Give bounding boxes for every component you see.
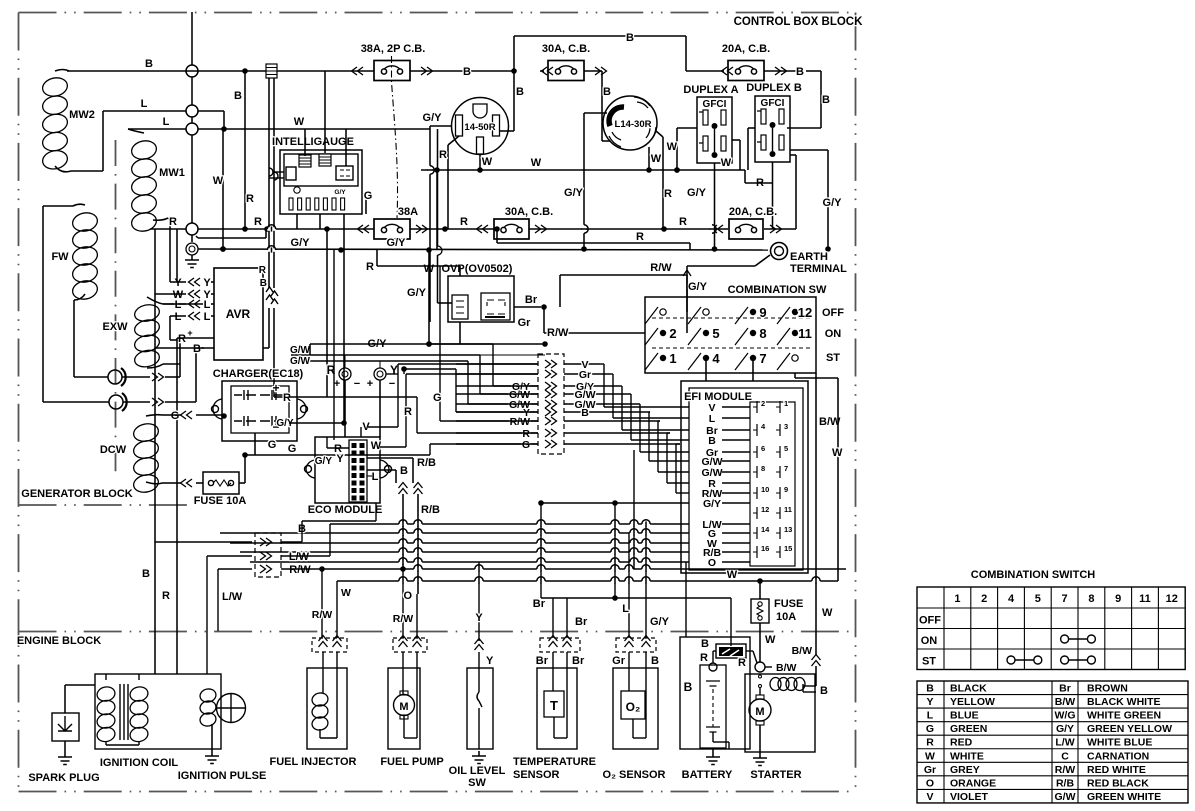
svg-text:B: B — [260, 278, 267, 289]
svg-text:R: R — [162, 590, 170, 602]
svg-text:L: L — [927, 710, 934, 722]
svg-text:L: L — [709, 413, 716, 425]
svg-text:B/W: B/W — [1055, 696, 1076, 708]
wire GFCI A leads — [667, 128, 740, 249]
svg-text:ST: ST — [826, 352, 840, 364]
svg-text:Br: Br — [575, 616, 588, 628]
svg-text:R/W: R/W — [289, 564, 311, 576]
svg-text:OIL LEVEL: OIL LEVEL — [449, 765, 506, 777]
svg-text:R: R — [738, 657, 746, 669]
svg-text:YELLOW: YELLOW — [950, 696, 995, 708]
module ECO MODULE — [305, 437, 392, 516]
svg-text:BLACK WHITE: BLACK WHITE — [1087, 696, 1161, 708]
svg-text:4: 4 — [712, 351, 720, 366]
svg-text:16: 16 — [761, 544, 769, 553]
wire GFCI B leads — [748, 128, 842, 249]
connector bulkhead column — [538, 354, 564, 454]
wire L/W R/W rows — [207, 551, 311, 674]
svg-text:TEMPERATURE: TEMPERATURE — [513, 756, 596, 768]
svg-text:G/Y: G/Y — [291, 237, 311, 249]
wire B/W chevron to starter — [792, 607, 833, 686]
svg-text:B: B — [581, 407, 589, 419]
svg-text:WHITE: WHITE — [950, 750, 984, 762]
svg-text:R: R — [254, 216, 262, 228]
svg-text:WHITE GREEN: WHITE GREEN — [1087, 710, 1161, 722]
wire starter R node — [738, 657, 746, 669]
svg-text:W: W — [721, 157, 732, 169]
starter STARTER — [745, 662, 828, 781]
svg-text:5: 5 — [712, 326, 719, 341]
svg-text:Y: Y — [475, 612, 483, 624]
connector ECO chevrons — [399, 483, 441, 595]
svg-text:B: B — [796, 66, 804, 78]
module AVR U1 — [214, 268, 263, 360]
svg-text:6: 6 — [761, 444, 765, 453]
wire OVP Br out — [514, 294, 645, 339]
svg-text:TERMINAL: TERMINAL — [790, 263, 847, 275]
wire B drop column — [234, 68, 254, 232]
svg-text:ON: ON — [825, 328, 842, 340]
svg-text:C: C — [1061, 750, 1069, 762]
svg-text:1: 1 — [784, 399, 788, 408]
svg-text:R/W: R/W — [1055, 764, 1076, 776]
svg-text:Y: Y — [336, 453, 344, 465]
svg-text:RED WHITE: RED WHITE — [1087, 764, 1146, 776]
svg-text:R: R — [246, 193, 254, 205]
plug SPARK PLUG — [28, 685, 99, 784]
wire B label top — [145, 58, 153, 70]
svg-text:SENSOR: SENSOR — [513, 769, 560, 781]
svg-text:Br: Br — [536, 655, 549, 667]
svg-text:G: G — [364, 190, 373, 202]
svg-text:14-50R: 14-50R — [464, 122, 495, 133]
svg-text:T: T — [550, 698, 558, 713]
svg-text:R/W: R/W — [650, 262, 672, 274]
wire W bus bottom — [337, 562, 838, 637]
svg-text:Gr: Gr — [612, 655, 626, 667]
svg-text:GREEN WHITE: GREEN WHITE — [1087, 791, 1161, 803]
svg-text:G/Y: G/Y — [1056, 723, 1074, 735]
svg-text:EARTH: EARTH — [790, 251, 828, 263]
svg-text:R/W: R/W — [312, 609, 333, 621]
svg-text:14: 14 — [761, 525, 770, 534]
svg-text:38A, 2P C.B.: 38A, 2P C.B. — [361, 43, 426, 55]
svg-text:B: B — [926, 683, 934, 695]
wire G/Y mid — [310, 341, 460, 355]
pump FUEL PUMP — [380, 636, 443, 769]
svg-text:COMBINATION SW: COMBINATION SW — [728, 284, 827, 296]
svg-text:B: B — [820, 685, 828, 697]
wire R return mid — [494, 226, 690, 250]
node CONTROL BOX BLOCK label — [734, 16, 864, 28]
wire R/W to comb — [560, 262, 687, 307]
svg-text:8: 8 — [1088, 593, 1094, 605]
wire: engine block top border — [19, 631, 856, 633]
svg-text:G: G — [926, 723, 934, 735]
svg-text:G/Y: G/Y — [315, 456, 333, 467]
winding MW2 — [41, 70, 355, 172]
sensor IGNITION PULSE — [178, 687, 267, 782]
wire winding common column — [186, 12, 198, 242]
wire W down to OVP — [424, 129, 452, 303]
svg-text:AVR: AVR — [226, 307, 251, 321]
svg-text:W: W — [482, 156, 493, 168]
svg-text:CHARGER(EC18): CHARGER(EC18) — [213, 368, 304, 380]
svg-text:Br: Br — [572, 655, 585, 667]
svg-text:L: L — [175, 299, 182, 311]
svg-text:5: 5 — [784, 444, 788, 453]
resistor hatch top — [266, 64, 284, 185]
svg-text:20A, C.B.: 20A, C.B. — [722, 43, 770, 55]
svg-text:G/W: G/W — [1055, 791, 1076, 803]
svg-text:B/W: B/W — [792, 645, 813, 657]
svg-text:ON: ON — [921, 635, 938, 647]
svg-text:GREEN YELLOW: GREEN YELLOW — [1087, 723, 1172, 735]
relay fusible link — [713, 644, 757, 663]
svg-text:GREEN: GREEN — [950, 723, 987, 735]
svg-text:B/W: B/W — [776, 662, 797, 674]
svg-text:R/W: R/W — [510, 416, 531, 428]
svg-text:MW2: MW2 — [69, 109, 95, 121]
svg-text:L: L — [204, 311, 211, 323]
svg-text:G: G — [522, 439, 530, 451]
wire CB1 trip link — [392, 56, 398, 218]
table color legend — [917, 681, 1188, 803]
wire comb sw drops — [687, 275, 753, 381]
svg-text:B: B — [701, 638, 709, 650]
svg-text:B: B — [708, 435, 716, 447]
svg-text:G/Y: G/Y — [650, 616, 670, 628]
svg-text:CONTROL BOX BLOCK: CONTROL BOX BLOCK — [734, 16, 864, 28]
svg-text:2: 2 — [669, 326, 676, 341]
svg-text:G: G — [171, 410, 180, 422]
svg-text:R/B: R/B — [1056, 777, 1075, 789]
module CHARGER(EC18) — [212, 368, 308, 441]
svg-text:R: R — [404, 406, 412, 418]
terminal EARTH — [687, 243, 847, 276]
svg-text:7: 7 — [759, 351, 766, 366]
winding FW — [43, 204, 109, 402]
wire AVR input L1 — [163, 299, 214, 311]
svg-text:R: R — [439, 149, 447, 161]
svg-text:FUEL PUMP: FUEL PUMP — [380, 756, 443, 768]
wire left feeds to connector — [327, 266, 545, 455]
svg-text:L: L — [204, 299, 211, 311]
svg-text:30A, C.B.: 30A, C.B. — [542, 43, 590, 55]
wire AVR input R+ — [177, 229, 214, 595]
svg-text:R: R — [366, 261, 374, 273]
svg-text:RED BLACK: RED BLACK — [1087, 777, 1149, 789]
svg-text:FUSE: FUSE — [774, 598, 803, 610]
breaker CB5 30A mid — [477, 206, 554, 239]
svg-text:O: O — [926, 777, 934, 789]
ground earth left — [185, 243, 199, 268]
wire bundle verticals mid — [538, 450, 689, 598]
svg-text:G/Y: G/Y — [564, 187, 584, 199]
svg-text:G/Y: G/Y — [823, 197, 843, 209]
table COMBINATION SWITCH — [917, 569, 1185, 670]
svg-text:11: 11 — [798, 326, 812, 341]
svg-text:+: + — [187, 328, 192, 338]
svg-text:Gr: Gr — [518, 317, 532, 329]
svg-text:DUPLEX B: DUPLEX B — [746, 82, 802, 94]
svg-text:9: 9 — [759, 305, 766, 320]
svg-text:FUEL INJECTOR: FUEL INJECTOR — [270, 756, 357, 768]
svg-text:R/B: R/B — [417, 457, 436, 469]
svg-text:L/W: L/W — [1055, 737, 1074, 749]
wire B junction to top — [511, 32, 686, 112]
svg-text:SW: SW — [468, 777, 486, 789]
svg-text:W: W — [294, 116, 305, 128]
svg-text:G: G — [268, 439, 277, 451]
wire AVR input L2 — [170, 311, 214, 340]
svg-text:OVP(OV0502): OVP(OV0502) — [442, 263, 513, 275]
svg-text:IGNITION COIL: IGNITION COIL — [100, 757, 179, 769]
battery BATTERY — [680, 637, 750, 781]
svg-text:RED: RED — [950, 737, 973, 749]
fuse F1 10A — [167, 472, 246, 507]
wire charger G in — [167, 410, 227, 422]
svg-text:W: W — [531, 157, 542, 169]
svg-text:B: B — [193, 343, 201, 355]
svg-text:1: 1 — [954, 593, 960, 605]
switch OIL LEVEL SW — [449, 639, 506, 790]
terminal charger R+ — [327, 363, 361, 437]
svg-text:L: L — [141, 98, 148, 110]
svg-text:W: W — [371, 440, 382, 452]
svg-text:G/Y: G/Y — [407, 287, 427, 299]
wire AVR input Y — [170, 229, 214, 289]
wire pair down to charger — [259, 185, 289, 397]
svg-text:SPARK PLUG: SPARK PLUG — [28, 772, 99, 784]
svg-text:W: W — [341, 587, 351, 599]
breaker CB2 30A — [540, 43, 611, 110]
svg-text:V: V — [926, 791, 933, 803]
wire EFI right B/W W — [795, 373, 843, 648]
fuse F2 10A — [751, 581, 803, 662]
wire G/Y OVP drop — [407, 250, 430, 322]
svg-text:2: 2 — [981, 593, 987, 605]
svg-text:7: 7 — [784, 464, 788, 473]
svg-text:W: W — [822, 607, 833, 619]
breaker CB1 38A 2P — [352, 43, 515, 81]
svg-text:CARNATION: CARNATION — [1087, 750, 1149, 762]
svg-text:Y: Y — [926, 696, 933, 708]
svg-text:R: R — [460, 216, 468, 228]
svg-text:COMBINATION SWITCH: COMBINATION SWITCH — [971, 569, 1096, 581]
wire: generator block bottom border — [19, 140, 193, 505]
svg-text:EFI MODULE: EFI MODULE — [684, 391, 752, 403]
module INTELLIGAUGE — [272, 136, 362, 214]
svg-text:G/Y: G/Y — [703, 498, 721, 510]
svg-text:GFCI: GFCI — [761, 98, 785, 109]
terminal charger Y- — [367, 363, 398, 437]
wire AVR input W — [155, 229, 214, 348]
svg-text:G/W: G/W — [290, 345, 311, 356]
svg-text:R/W: R/W — [393, 613, 414, 625]
wire G/Y bus — [198, 237, 831, 253]
svg-text:FUSE 10A: FUSE 10A — [194, 495, 247, 507]
svg-text:INTELLIGAUGE: INTELLIGAUGE — [272, 136, 354, 148]
svg-text:R/W: R/W — [547, 327, 569, 339]
svg-text:B: B — [145, 58, 153, 70]
wire L row to W — [163, 111, 430, 132]
svg-text:B: B — [651, 655, 659, 667]
svg-text:L14-30R: L14-30R — [615, 119, 652, 130]
node ENGINE BLOCK label — [17, 635, 101, 647]
wire R bus — [150, 155, 796, 232]
svg-text:R: R — [700, 652, 708, 664]
svg-text:W/G: W/G — [1055, 710, 1076, 722]
svg-text:W: W — [213, 175, 224, 187]
svg-text:EXW: EXW — [102, 321, 128, 333]
svg-text:B: B — [234, 90, 242, 102]
svg-text:W: W — [925, 750, 935, 762]
outlet DUPLEX A GFCI — [683, 84, 738, 163]
winding DCW — [100, 415, 167, 495]
svg-text:FW: FW — [51, 251, 69, 263]
svg-text:O₂ SENSOR: O₂ SENSOR — [603, 769, 666, 781]
svg-text:DUPLEX A: DUPLEX A — [683, 84, 738, 96]
wire harness buses — [220, 533, 689, 562]
svg-text:Gr: Gr — [924, 764, 936, 776]
svg-text:IGNITION PULSE: IGNITION PULSE — [178, 770, 267, 782]
svg-text:B: B — [463, 66, 471, 78]
svg-text:G/Y: G/Y — [688, 281, 708, 293]
wire B R LW verticals — [142, 348, 177, 674]
svg-text:−: − — [389, 378, 395, 390]
svg-text:O: O — [403, 590, 412, 602]
svg-text:Y: Y — [203, 277, 211, 289]
svg-text:Gr: Gr — [579, 369, 591, 381]
svg-text:W: W — [651, 153, 662, 165]
wire charger G bottom — [242, 433, 430, 483]
sensor O2 SENSOR — [603, 636, 666, 782]
svg-text:G/Y: G/Y — [387, 237, 407, 249]
svg-text:OFF: OFF — [919, 615, 941, 627]
svg-text:W: W — [832, 447, 843, 459]
module EFI MODULE — [681, 381, 808, 573]
svg-text:R: R — [679, 216, 687, 228]
wire L from MW2 bottom loop — [103, 98, 186, 171]
svg-text:11: 11 — [1139, 593, 1151, 605]
svg-text:Br: Br — [1059, 683, 1071, 695]
svg-text:B: B — [142, 568, 150, 580]
svg-text:B: B — [626, 32, 634, 44]
relay OVP(OV0502) — [442, 263, 514, 322]
svg-text:W: W — [727, 569, 738, 581]
svg-text:GENERATOR BLOCK: GENERATOR BLOCK — [21, 488, 132, 500]
svg-text:DCW: DCW — [100, 444, 127, 456]
wire 14-50R leads — [423, 112, 514, 250]
svg-text:3: 3 — [784, 422, 788, 431]
svg-text:R: R — [636, 231, 644, 243]
svg-text:W: W — [667, 141, 678, 153]
svg-text:L/W: L/W — [289, 551, 310, 563]
svg-text:12: 12 — [761, 505, 769, 514]
injector FUEL INJECTOR — [270, 636, 357, 769]
svg-text:11: 11 — [784, 505, 792, 514]
wire L14-30R leads — [564, 110, 672, 249]
svg-text:STARTER: STARTER — [750, 769, 801, 781]
wire connector rows right — [564, 359, 680, 444]
svg-text:BATTERY: BATTERY — [682, 769, 733, 781]
svg-text:+: + — [367, 378, 373, 390]
receptacle L14-30R — [603, 96, 657, 150]
svg-text:GFCI: GFCI — [703, 99, 727, 110]
wire B to connector — [155, 503, 376, 542]
wire W bus — [421, 157, 772, 250]
wire charger R out — [289, 229, 327, 397]
wire R/W bus drops — [312, 533, 731, 646]
svg-text:2: 2 — [761, 399, 765, 408]
svg-text:R: R — [283, 392, 291, 404]
wire intelligauge feeds — [297, 71, 372, 250]
svg-text:B: B — [684, 680, 693, 694]
svg-text:L: L — [372, 471, 379, 483]
winding MW1 — [128, 129, 186, 233]
receptacle 14-50R — [452, 98, 509, 155]
svg-text:O₂: O₂ — [626, 700, 641, 714]
svg-text:M: M — [399, 701, 408, 713]
svg-text:Br: Br — [533, 598, 546, 610]
svg-text:ORANGE: ORANGE — [950, 777, 996, 789]
svg-text:VIOLET: VIOLET — [950, 791, 989, 803]
svg-text:G: G — [433, 392, 442, 404]
svg-text:10: 10 — [761, 485, 769, 494]
wire AVR input B — [155, 343, 214, 355]
svg-text:L: L — [163, 116, 170, 128]
wire ECO pins — [315, 250, 436, 483]
breaker CB4 38A mid — [358, 206, 428, 239]
wire connector rows left — [456, 364, 538, 451]
svg-text:G: G — [288, 443, 297, 455]
svg-text:9: 9 — [1115, 593, 1121, 605]
svg-text:BROWN: BROWN — [1087, 683, 1128, 695]
svg-text:8: 8 — [759, 326, 766, 341]
svg-text:R: R — [926, 737, 934, 749]
winding EXW — [102, 297, 204, 369]
wire G/W pair — [290, 345, 480, 368]
svg-text:13: 13 — [784, 525, 792, 534]
svg-text:20A, C.B.: 20A, C.B. — [729, 206, 777, 218]
svg-text:1: 1 — [669, 351, 676, 366]
wire crossing hops — [267, 166, 820, 584]
svg-text:ECO MODULE: ECO MODULE — [308, 504, 383, 516]
svg-text:R: R — [259, 265, 267, 276]
wire W drop from L row — [213, 129, 226, 252]
breaker CB3 20A top — [686, 43, 830, 128]
svg-text:9: 9 — [784, 485, 788, 494]
connector triple chevron — [255, 524, 846, 577]
svg-text:WHITE BLUE: WHITE BLUE — [1087, 737, 1152, 749]
svg-text:12: 12 — [1166, 593, 1178, 605]
outlet DUPLEX B GFCI — [746, 82, 802, 162]
svg-text:ENGINE BLOCK: ENGINE BLOCK — [17, 635, 101, 647]
svg-text:Br: Br — [525, 294, 538, 306]
slip ring 1 — [108, 364, 180, 386]
svg-text:G/Y: G/Y — [687, 187, 707, 199]
svg-text:L: L — [622, 603, 629, 615]
svg-text:Y: Y — [174, 277, 182, 289]
switch COMBINATION SW — [645, 284, 844, 373]
svg-text:L: L — [175, 311, 182, 323]
wire charger GY out — [289, 250, 347, 426]
svg-text:R/B: R/B — [421, 504, 440, 516]
svg-text:−: − — [354, 378, 360, 390]
svg-text:15: 15 — [784, 544, 792, 553]
svg-text:Y: Y — [390, 363, 398, 377]
